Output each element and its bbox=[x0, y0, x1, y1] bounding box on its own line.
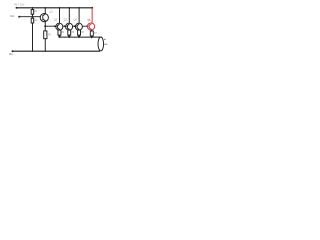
resistor R1 bbox=[32, 8, 34, 10]
junction bus tap Q5 bbox=[86, 25, 88, 27]
tank top edge bbox=[59, 36, 101, 38]
wire Q4 emitter bbox=[78, 28, 80, 31]
wire base bus bbox=[45, 25, 88, 27]
junction divider input bbox=[32, 16, 34, 18]
wire top rail bbox=[16, 7, 93, 9]
junction rail end red dot bbox=[91, 7, 93, 9]
resistor R7 bbox=[90, 31, 93, 36]
svg-text:Cin: Cin bbox=[10, 14, 15, 18]
junction bus tap Q2 bbox=[54, 25, 56, 27]
terminal V+ bbox=[16, 7, 18, 9]
wire input to Q1 base bbox=[19, 16, 43, 18]
wire Q5 collector (red) bbox=[91, 8, 93, 23]
wire Q3 emitter bbox=[68, 28, 70, 31]
junction bus tap Q4 bbox=[74, 25, 76, 27]
probe arrow Q2 bbox=[59, 34, 61, 37]
probe arrow Q5 bbox=[91, 35, 93, 37]
resistor R4 bbox=[58, 30, 61, 35]
tank label marks bbox=[104, 39, 106, 40]
junction R3 bottom bbox=[45, 51, 46, 52]
junction rail tap Q2 bbox=[59, 7, 61, 9]
resistor R3 bbox=[44, 31, 47, 39]
tank end cap bbox=[98, 37, 104, 51]
wire Q1 collector to rail bbox=[44, 8, 46, 14]
junction rail tap Q4 bbox=[78, 7, 80, 9]
transistor Q4 bbox=[75, 23, 82, 30]
terminal 0V bbox=[12, 50, 14, 52]
highlighted transistor Q5 (red) bbox=[87, 7, 94, 30]
junction bus tap Q3 bbox=[64, 25, 66, 27]
wire Q1 emitter down bbox=[44, 21, 46, 31]
junction rail R1 bbox=[32, 7, 34, 9]
wire Q2 collector bbox=[59, 8, 61, 23]
junction emitter base-bus bbox=[44, 25, 46, 27]
wire Q3 collector bbox=[68, 8, 70, 23]
terminal Cin bbox=[18, 16, 20, 18]
resistor R2 bbox=[31, 18, 34, 23]
transistor Q3 bbox=[66, 23, 73, 30]
wire Q5 emitter bbox=[91, 30, 93, 31]
transistor Q2 bbox=[56, 23, 63, 30]
junction rail tap Q3 bbox=[68, 7, 70, 9]
wire Q2 emitter bbox=[59, 28, 61, 31]
junction R2 bottom bbox=[32, 51, 33, 52]
transistor Q1 bbox=[40, 14, 48, 22]
transistor Q5 circle bbox=[87, 23, 94, 30]
wire Q4 collector bbox=[78, 8, 80, 23]
wire bottom rail bbox=[12, 50, 100, 52]
resistor R6 bbox=[78, 30, 81, 35]
resistor R5 bbox=[68, 30, 71, 35]
probe arrow Q4 bbox=[78, 34, 80, 37]
probe arrow Q3 bbox=[68, 34, 70, 37]
svg-text:9V | 12V: 9V | 12V bbox=[14, 3, 24, 7]
